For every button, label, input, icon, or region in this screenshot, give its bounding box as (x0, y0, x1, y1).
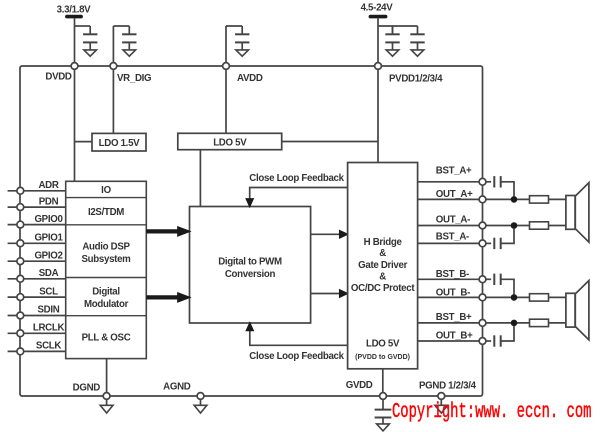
svg-text:GPIO0: GPIO0 (34, 214, 62, 225)
svg-text:PDN: PDN (39, 196, 59, 207)
svg-text:Gate Driver: Gate Driver (358, 260, 407, 271)
svg-text:Modulator: Modulator (84, 299, 129, 310)
svg-text:H Bridge: H Bridge (364, 237, 403, 248)
svg-text:OUT_A+: OUT_A+ (436, 189, 473, 200)
svg-text:DGND: DGND (73, 383, 101, 394)
svg-text:PLL & OSC: PLL & OSC (82, 333, 131, 344)
svg-text:(PVDD to GVDD): (PVDD to GVDD) (355, 354, 410, 361)
svg-text:AGND: AGND (163, 382, 191, 393)
svg-text:BST_A-: BST_A- (436, 232, 469, 243)
svg-text:PGND 1/2/3/4: PGND 1/2/3/4 (419, 380, 477, 391)
svg-text:Copyright:www. eccn. com: Copyright:www. eccn. com (392, 401, 591, 425)
svg-text:SCL: SCL (39, 286, 58, 297)
svg-text:LDO 5V: LDO 5V (366, 338, 400, 349)
svg-text:SCLK: SCLK (36, 341, 61, 352)
svg-text:VR_DIG: VR_DIG (117, 73, 151, 84)
svg-text:IO: IO (101, 185, 111, 196)
svg-text:LDO 1.5V: LDO 1.5V (99, 138, 141, 149)
svg-text:GPIO1: GPIO1 (34, 233, 63, 244)
svg-text:OUT_B-: OUT_B- (436, 287, 470, 298)
svg-text:Subsystem: Subsystem (82, 254, 132, 265)
svg-text:Audio DSP: Audio DSP (82, 241, 130, 252)
svg-text:SDA: SDA (39, 268, 59, 279)
svg-text:SDIN: SDIN (38, 305, 60, 316)
svg-text:LRCLK: LRCLK (33, 323, 65, 334)
svg-text:BST_B-: BST_B- (436, 269, 469, 280)
svg-text:PVDD1/2/3/4: PVDD1/2/3/4 (389, 74, 443, 85)
svg-text:Digital to PWM: Digital to PWM (218, 256, 282, 267)
svg-text:GVDD: GVDD (346, 380, 373, 391)
svg-text:Conversion: Conversion (225, 269, 276, 280)
svg-text:OC/DC Protect: OC/DC Protect (351, 283, 415, 294)
svg-text:LDO 5V: LDO 5V (213, 137, 247, 148)
svg-text:3.3/1.8V: 3.3/1.8V (57, 5, 92, 16)
svg-text:OUT_B+: OUT_B+ (436, 331, 473, 342)
svg-text:OUT_A-: OUT_A- (436, 214, 470, 225)
svg-text:&: & (379, 248, 386, 259)
svg-text:Digital: Digital (92, 286, 120, 297)
svg-text:&: & (379, 272, 386, 283)
svg-text:4.5-24V: 4.5-24V (361, 3, 394, 14)
svg-text:GPIO2: GPIO2 (34, 250, 62, 261)
svg-text:BST_B+: BST_B+ (436, 312, 472, 323)
svg-text:Close Loop Feedback: Close Loop Feedback (249, 173, 344, 184)
svg-text:Close Loop Feedback: Close Loop Feedback (249, 351, 344, 362)
svg-text:I2S/TDM: I2S/TDM (88, 207, 124, 218)
svg-text:ADR: ADR (38, 180, 58, 191)
svg-text:AVDD: AVDD (237, 73, 263, 84)
svg-text:BST_A+: BST_A+ (436, 166, 472, 177)
svg-text:DVDD: DVDD (45, 72, 72, 83)
